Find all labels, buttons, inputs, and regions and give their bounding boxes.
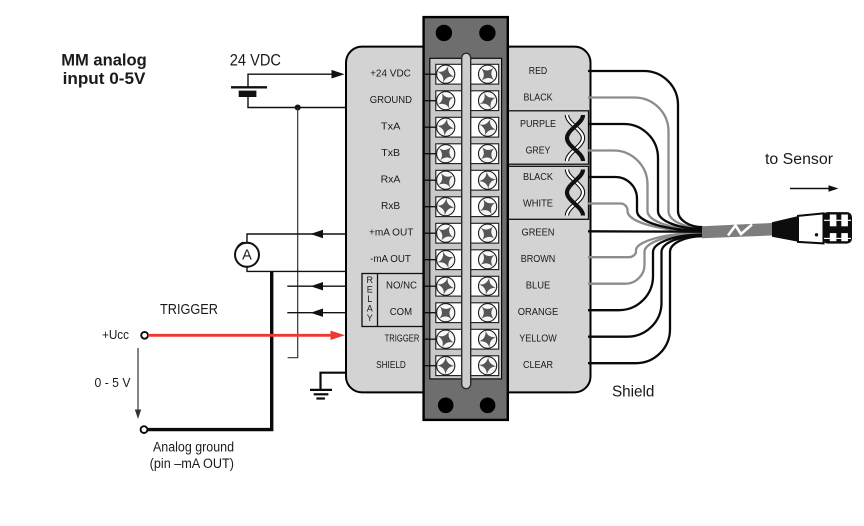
svg-text:TxB: TxB (381, 148, 400, 159)
svg-text:RxB: RxB (381, 201, 400, 212)
svg-text:0 - 5 V: 0 - 5 V (95, 376, 132, 390)
svg-text:-mA OUT: -mA OUT (370, 254, 411, 265)
svg-text:SHIELD: SHIELD (376, 360, 406, 371)
svg-text:TRIGGER: TRIGGER (385, 333, 420, 344)
svg-text:input 0-5V: input 0-5V (63, 69, 146, 88)
svg-text:BLACK: BLACK (523, 172, 553, 183)
svg-text:A: A (242, 247, 252, 263)
svg-text:BROWN: BROWN (521, 254, 556, 265)
svg-text:YELLOW: YELLOW (519, 333, 557, 344)
svg-text:TxA: TxA (381, 121, 401, 132)
svg-text:GREY: GREY (526, 146, 551, 157)
svg-text:RED: RED (529, 66, 547, 77)
svg-text:A: A (367, 304, 373, 314)
svg-text:(pin –mA OUT): (pin –mA OUT) (150, 456, 234, 471)
svg-text:TRIGGER: TRIGGER (160, 301, 218, 318)
svg-text:CLEAR: CLEAR (523, 360, 553, 371)
svg-text:RxA: RxA (381, 174, 401, 185)
svg-text:GROUND: GROUND (370, 95, 412, 106)
svg-text:BLUE: BLUE (526, 280, 551, 291)
svg-text:24 VDC: 24 VDC (230, 51, 281, 69)
svg-text:WHITE: WHITE (523, 199, 553, 210)
svg-text:GREEN: GREEN (522, 227, 555, 238)
svg-text:L: L (367, 294, 372, 304)
svg-text:MM analog: MM analog (61, 51, 147, 70)
svg-text:+Ucc: +Ucc (102, 327, 129, 342)
svg-text:PURPLE: PURPLE (520, 119, 556, 130)
svg-text:Shield: Shield (612, 383, 655, 400)
svg-text:ORANGE: ORANGE (518, 307, 559, 318)
svg-text:to Sensor: to Sensor (765, 151, 833, 168)
svg-text:E: E (367, 284, 373, 294)
svg-text:Y: Y (367, 313, 373, 323)
svg-text:R: R (367, 275, 374, 285)
svg-text:BLACK: BLACK (523, 93, 552, 104)
svg-text:+24 VDC: +24 VDC (370, 68, 411, 79)
svg-text:COM: COM (390, 307, 412, 318)
svg-text:Analog ground: Analog ground (153, 440, 234, 455)
svg-text:NO/NC: NO/NC (386, 280, 417, 291)
svg-text:+mA OUT: +mA OUT (369, 227, 413, 238)
